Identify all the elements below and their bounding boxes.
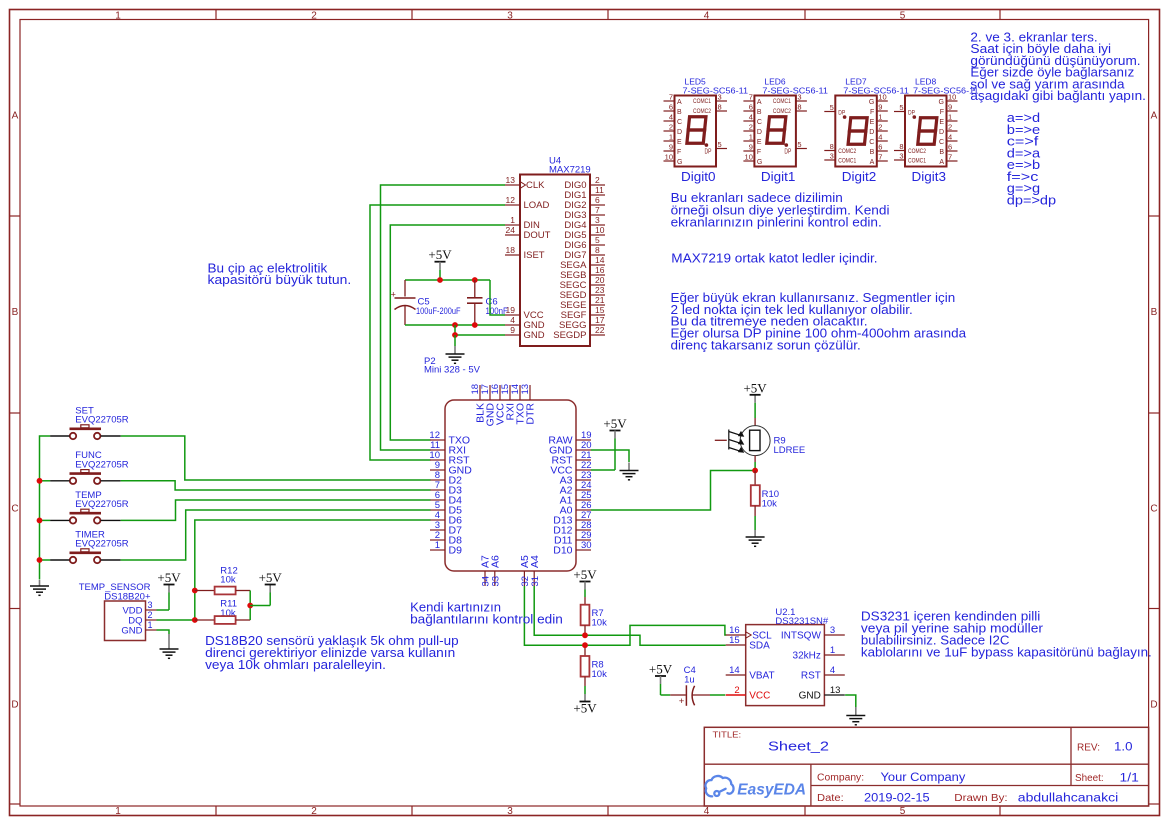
power flag +5V (left of C4) <box>655 675 666 677</box>
svg-text:20: 20 <box>595 275 605 285</box>
svg-text:A: A <box>939 159 944 166</box>
svg-text:7-SEG-SC56-11: 7-SEG-SC56-11 <box>913 85 979 95</box>
svg-text:1: 1 <box>148 620 153 630</box>
svg-text:30: 30 <box>581 540 592 551</box>
svg-text:2: 2 <box>311 806 317 817</box>
U4 pin 23 SEGD <box>590 294 605 296</box>
P2 pin 34 A7 <box>484 571 486 586</box>
svg-text:9: 9 <box>948 103 952 112</box>
svg-text:RST: RST <box>801 671 821 682</box>
U4 pin 2 DIG0 <box>590 184 605 186</box>
wire TEMP to D4 <box>121 500 431 520</box>
junction <box>247 603 253 609</box>
svg-text:EVQ22705R: EVQ22705R <box>75 415 128 426</box>
U4 pin 15 SEGF <box>590 314 605 316</box>
svg-text:GND: GND <box>799 691 821 702</box>
P2 pin 24 A2 <box>576 489 591 491</box>
power flag +5V (above R7) <box>580 581 591 583</box>
svg-text:C: C <box>939 139 944 146</box>
P2 pin 32 A5 <box>523 571 525 586</box>
svg-text:12: 12 <box>506 195 516 205</box>
svg-text:A: A <box>12 111 19 122</box>
P2 pin 22 VCC <box>576 469 591 471</box>
wire A0 to R9/R10 node <box>591 471 755 511</box>
svg-text:1: 1 <box>749 133 753 142</box>
svg-text:+: + <box>679 696 685 707</box>
svg-text:COMC1: COMC1 <box>693 98 711 105</box>
power flag +5V (below R8, inverted) <box>580 701 591 703</box>
svg-text:21: 21 <box>595 295 605 305</box>
wire VDD to +5V <box>157 609 170 611</box>
svg-text:SDA: SDA <box>749 641 770 652</box>
svg-text:4: 4 <box>878 133 882 142</box>
svg-text:3: 3 <box>830 152 834 161</box>
svg-text:5: 5 <box>830 103 834 112</box>
U4 pin 17 SEGG <box>590 324 605 326</box>
P2 pin 27 D13 <box>576 519 591 521</box>
svg-text:D9: D9 <box>449 545 463 557</box>
svg-text:Your Company: Your Company <box>881 772 966 784</box>
svg-text:10k: 10k <box>592 669 608 680</box>
svg-text:2: 2 <box>311 10 317 21</box>
P2 pin 28 D12 <box>576 529 591 531</box>
wire D6 to DQ node <box>195 520 431 620</box>
svg-text:E: E <box>870 119 875 126</box>
wire A4 to SDA <box>534 586 726 645</box>
svg-text:REV:: REV: <box>1077 743 1100 754</box>
junction <box>452 322 458 328</box>
capacitor C5 <box>404 280 406 297</box>
svg-text:3: 3 <box>830 625 835 636</box>
svg-text:D: D <box>869 129 874 136</box>
svg-text:8: 8 <box>830 142 834 151</box>
svg-text:A: A <box>1151 111 1158 122</box>
P2 pin 10 RST <box>430 459 445 461</box>
svg-text:8: 8 <box>718 103 722 112</box>
svg-text:23: 23 <box>595 285 605 295</box>
wire LOAD to RST <box>370 205 505 460</box>
power flag +5V (above DS18B20) <box>164 584 175 586</box>
svg-text:+5V: +5V <box>157 570 181 585</box>
svg-text:Company:: Company: <box>817 773 864 784</box>
svg-text:10k: 10k <box>592 618 608 629</box>
U2.1 pin 14 VBAT <box>726 674 746 676</box>
svg-text:B: B <box>12 307 19 318</box>
svg-text:13: 13 <box>830 685 841 696</box>
U4 pin 10 DIG5 <box>590 234 605 236</box>
svg-text:Digit2: Digit2 <box>842 169 877 184</box>
svg-text:9: 9 <box>669 143 673 152</box>
svg-text:COMC1: COMC1 <box>908 158 926 165</box>
svg-text:7: 7 <box>749 93 753 102</box>
wire branch to GND pin 9 <box>455 325 505 335</box>
svg-text:3: 3 <box>797 93 801 102</box>
wire SET to D2 <box>121 436 431 480</box>
svg-text:GND: GND <box>524 330 545 341</box>
svg-text:kablolarını ve 1uF bypass kapa: kablolarını ve 1uF bypass kapasitörünü b… <box>861 646 1152 660</box>
svg-text:5: 5 <box>899 103 903 112</box>
svg-text:2: 2 <box>948 123 952 132</box>
svg-text:Digit0: Digit0 <box>681 169 716 184</box>
svg-text:2: 2 <box>669 123 673 132</box>
svg-text:18: 18 <box>506 245 516 255</box>
svg-text:7: 7 <box>948 153 952 162</box>
svg-text:EasyEDA: EasyEDA <box>737 781 806 798</box>
P2 pin 4 D6 <box>430 519 445 521</box>
svg-text:10k: 10k <box>220 575 236 586</box>
P2 pin 30 D10 <box>576 549 591 551</box>
svg-text:MAX7219 ortak katot ledler içi: MAX7219 ortak katot ledler içindir. <box>671 252 877 266</box>
U4 pin 14 SEGA <box>590 264 605 266</box>
junction <box>452 332 458 338</box>
svg-text:6: 6 <box>669 103 673 112</box>
photoresistor R9 LDREE <box>754 395 756 403</box>
svg-text:E: E <box>757 139 762 146</box>
capacitor C6 <box>474 280 476 297</box>
U2.1 pin 2 VCC <box>726 694 746 696</box>
junction <box>472 322 478 328</box>
svg-text:10: 10 <box>745 153 753 162</box>
U4 pin 21 SEGE <box>590 304 605 306</box>
svg-text:10: 10 <box>948 93 956 102</box>
svg-text:7: 7 <box>878 153 882 162</box>
svg-text:A: A <box>870 159 875 166</box>
svg-text:D10: D10 <box>553 545 572 557</box>
U4 pin 3 DIG4 <box>590 224 605 226</box>
svg-text:13: 13 <box>506 175 516 185</box>
svg-text:5: 5 <box>900 10 906 21</box>
DS18B20 pin 1 GND <box>146 629 157 631</box>
svg-text:6: 6 <box>878 143 882 152</box>
junction <box>192 617 198 623</box>
svg-text:EVQ22705R: EVQ22705R <box>75 539 128 550</box>
svg-text:13: 13 <box>520 384 531 395</box>
svg-text:4: 4 <box>704 806 710 817</box>
wire button ground bus <box>40 436 51 580</box>
U4 pin 9 GND <box>505 334 520 336</box>
svg-text:COMC2: COMC2 <box>773 108 791 115</box>
wire GND to ground <box>157 630 170 634</box>
svg-text:+5V: +5V <box>573 701 597 716</box>
svg-text:22: 22 <box>595 325 605 335</box>
svg-text:B: B <box>939 149 944 156</box>
power flag +5V (above R9) <box>750 394 761 396</box>
svg-text:SEGDP: SEGDP <box>553 330 586 341</box>
svg-text:14: 14 <box>595 255 605 265</box>
svg-text:COMC2: COMC2 <box>693 108 711 115</box>
svg-text:10: 10 <box>665 153 673 162</box>
P2 pin 16 VCC <box>499 385 501 400</box>
svg-text:3: 3 <box>595 215 600 225</box>
U4 pin 24 DOUT <box>505 234 520 236</box>
DS18B20 pin 2 DQ <box>146 619 157 621</box>
svg-text:dp=>dp: dp=>dp <box>1007 193 1056 207</box>
svg-text:4: 4 <box>669 113 673 122</box>
P2 pin 7 D3 <box>430 489 445 491</box>
svg-text:EVQ22705R: EVQ22705R <box>75 499 128 510</box>
svg-text:1: 1 <box>510 215 515 225</box>
svg-text:10k: 10k <box>762 499 778 510</box>
svg-text:CLK: CLK <box>526 180 545 191</box>
wire to ground <box>454 335 456 346</box>
svg-text:+5V: +5V <box>603 416 627 431</box>
U4 pin 8 DIG7 <box>590 254 605 256</box>
wire R11/R12 right join <box>249 591 251 621</box>
svg-text:4: 4 <box>948 133 952 142</box>
P2 pin 18 BLK <box>479 385 481 400</box>
svg-text:COMC2: COMC2 <box>838 148 856 155</box>
svg-text:1: 1 <box>115 806 121 817</box>
junction <box>582 632 588 638</box>
junction <box>437 277 443 283</box>
svg-text:DTR: DTR <box>525 403 537 425</box>
title block <box>704 727 1148 806</box>
junction <box>37 518 43 524</box>
P2 pin 20 GND <box>576 449 591 451</box>
svg-text:4: 4 <box>510 315 515 325</box>
svg-text:F: F <box>870 109 874 116</box>
svg-text:TITLE:: TITLE: <box>713 730 742 740</box>
svg-text:3: 3 <box>507 10 513 21</box>
svg-text:+5V: +5V <box>743 380 767 395</box>
svg-text:5: 5 <box>718 140 722 149</box>
svg-text:+5V: +5V <box>573 567 597 582</box>
junction <box>37 557 43 563</box>
svg-text:Sheet_2: Sheet_2 <box>768 739 829 754</box>
P2 pin 3 D7 <box>430 529 445 531</box>
svg-text:COMC2: COMC2 <box>908 148 926 155</box>
P2 pin 2 D8 <box>430 539 445 541</box>
svg-text:kapasitörü büyük tutun.: kapasitörü büyük tutun. <box>208 273 352 287</box>
svg-text:C: C <box>11 504 18 515</box>
svg-text:Date:: Date: <box>817 793 844 804</box>
ground (right of U2.1) <box>846 715 865 717</box>
svg-text:aşagıdaki gibi bağlantı yapın.: aşagıdaki gibi bağlantı yapın. <box>970 89 1146 103</box>
svg-text:15: 15 <box>595 305 605 315</box>
svg-text:F: F <box>677 149 681 156</box>
svg-text:1: 1 <box>830 645 835 656</box>
U4 pin 6 DIG2 <box>590 204 605 206</box>
wire DIN to TXO <box>390 225 505 440</box>
wire +5V rail to caps <box>405 279 490 281</box>
svg-text:A: A <box>677 99 682 106</box>
svg-text:bağlantılarını kontrol edin: bağlantılarını kontrol edin <box>410 612 563 626</box>
svg-text:6: 6 <box>749 103 753 112</box>
resistor R10 <box>754 471 756 486</box>
svg-text:1/1: 1/1 <box>1120 772 1139 784</box>
svg-text:LOAD: LOAD <box>524 200 550 211</box>
wire VCC19 to +5V rail <box>490 280 505 315</box>
U2.1 pin 4 RST <box>824 674 844 676</box>
U2.1 pin 3 INTSQW <box>824 634 844 636</box>
U2.1 pin 13 GND <box>824 694 844 696</box>
svg-text:+5V: +5V <box>649 662 673 677</box>
wire DQ to node <box>157 619 195 621</box>
P2 pin 6 D4 <box>430 499 445 501</box>
wire A5 to SCL <box>524 586 726 645</box>
svg-text:3: 3 <box>148 600 153 610</box>
svg-text:EVQ22705R: EVQ22705R <box>75 460 128 471</box>
junction node A0/R9/R10 <box>752 468 758 474</box>
svg-text:16: 16 <box>595 265 605 275</box>
svg-text:1u: 1u <box>684 674 695 685</box>
svg-text:ISET: ISET <box>524 250 545 261</box>
svg-text:100uF-200uF: 100uF-200uF <box>416 306 461 317</box>
svg-text:A: A <box>757 99 762 106</box>
svg-text:LDREE: LDREE <box>774 445 806 456</box>
svg-text:DP: DP <box>705 149 712 156</box>
P2 pin 15 RXI <box>509 385 511 400</box>
svg-text:Digit1: Digit1 <box>761 169 796 184</box>
U2.1 pin 15 SDA <box>726 644 746 646</box>
svg-text:3: 3 <box>507 806 513 817</box>
svg-text:5: 5 <box>595 235 600 245</box>
svg-text:direnç takarsanız sorun çözülü: direnç takarsanız sorun çözülür. <box>671 339 861 353</box>
ground (below R10) <box>754 530 756 537</box>
wire CLK to RXI <box>381 185 506 450</box>
junction R12 node <box>192 588 198 594</box>
P2 pin 26 A0 <box>576 509 591 511</box>
wire gnd rail under caps <box>405 324 505 326</box>
svg-text:D: D <box>1150 700 1157 711</box>
svg-text:3: 3 <box>718 93 722 102</box>
P2 pin 33 A6 <box>494 571 496 586</box>
svg-text:veya 10k ohmları paralelleyin.: veya 10k ohmları paralelleyin. <box>205 658 386 672</box>
svg-text:D: D <box>939 129 944 136</box>
svg-text:24: 24 <box>506 225 516 235</box>
svg-text:VBAT: VBAT <box>749 671 774 682</box>
power flag +5V (above pullups) <box>265 584 276 586</box>
svg-text:1: 1 <box>435 540 440 551</box>
P2 pin 5 D5 <box>430 509 445 511</box>
U4 pin 18 ISET <box>505 254 520 256</box>
svg-text:4: 4 <box>830 665 835 676</box>
svg-text:1: 1 <box>669 133 673 142</box>
svg-text:2: 2 <box>734 685 739 696</box>
svg-text:E: E <box>939 119 944 126</box>
svg-text:2: 2 <box>595 175 600 185</box>
DS18B20 pin 3 VDD <box>146 609 157 611</box>
U4 pin 16 SEGB <box>590 274 605 276</box>
P2 pin 1 D9 <box>430 549 445 551</box>
svg-text:G: G <box>869 99 874 106</box>
P2 pin 14 TXO <box>519 385 521 400</box>
svg-text:DOUT: DOUT <box>524 230 551 241</box>
wire +5V to C4 <box>661 694 671 696</box>
svg-text:3: 3 <box>899 152 903 161</box>
P2 pin 21 RST <box>576 459 591 461</box>
svg-text:9: 9 <box>749 143 753 152</box>
svg-text:10: 10 <box>878 93 886 102</box>
svg-text:+: + <box>391 290 396 300</box>
wire GND13 to ground <box>845 695 856 707</box>
P2 pin 9 GND <box>430 469 445 471</box>
svg-text:1: 1 <box>115 10 121 21</box>
svg-text:G: G <box>677 159 682 166</box>
svg-text:15: 15 <box>729 635 740 646</box>
svg-text:C: C <box>869 139 874 146</box>
svg-text:B: B <box>870 149 875 156</box>
svg-text:INTSQW: INTSQW <box>781 631 822 642</box>
U4 pin 12 LOAD <box>505 204 520 206</box>
svg-text:7-SEG-SC56-11: 7-SEG-SC56-11 <box>683 85 749 95</box>
U4 pin 20 SEGC <box>590 284 605 286</box>
svg-text:DP: DP <box>784 149 791 156</box>
svg-text:4: 4 <box>749 113 753 122</box>
svg-text:1: 1 <box>878 113 882 122</box>
wire to +5V (pullups) <box>250 605 270 607</box>
svg-text:2019-02-15: 2019-02-15 <box>864 792 930 804</box>
P2 pin 29 D11 <box>576 539 591 541</box>
svg-text:C: C <box>677 119 682 126</box>
U2.1 pin 16 SCL <box>726 634 746 636</box>
svg-text:4: 4 <box>704 10 710 21</box>
svg-text:GND: GND <box>121 625 142 636</box>
ground (button bus) <box>39 580 41 586</box>
U4 pin 1 DIN <box>505 224 520 226</box>
wire P2 GND20 to ground <box>591 450 629 462</box>
svg-text:5: 5 <box>797 140 801 149</box>
svg-text:17: 17 <box>595 315 605 325</box>
svg-text:Sheet:: Sheet: <box>1075 773 1104 784</box>
U2.1 pin 1 32kHz <box>824 654 844 656</box>
svg-text:B: B <box>1151 307 1158 318</box>
ground (right of P2) <box>628 463 630 471</box>
U4 pin 5 DIG6 <box>590 244 605 246</box>
svg-text:33: 33 <box>490 576 501 587</box>
power flag +5V (right of P2) <box>610 430 621 432</box>
svg-text:C: C <box>757 119 762 126</box>
svg-text:9: 9 <box>510 325 515 335</box>
P2 pin 25 A1 <box>576 499 591 501</box>
svg-text:11: 11 <box>595 185 604 195</box>
P2 pin 12 TXO <box>430 439 445 441</box>
svg-text:7: 7 <box>595 205 600 215</box>
resistor R7 <box>584 597 586 605</box>
svg-text:1: 1 <box>948 113 952 122</box>
U4 pin 19 VCC <box>505 314 520 316</box>
P2 pin 11 RXI <box>430 449 445 451</box>
svg-text:10: 10 <box>595 225 605 235</box>
svg-text:Mini 328 - 5V: Mini 328 - 5V <box>424 365 481 376</box>
U4 pin 11 DIG1 <box>590 194 605 196</box>
svg-text:D: D <box>757 129 762 136</box>
P2 pin 31 A4 <box>533 571 535 586</box>
svg-text:31: 31 <box>530 576 541 587</box>
svg-text:COMC1: COMC1 <box>773 98 791 105</box>
svg-text:B: B <box>757 109 762 116</box>
U4 pin 7 DIG3 <box>590 214 605 216</box>
ground (below C5/C6) <box>454 346 456 354</box>
svg-text:7-SEG-SC56-11: 7-SEG-SC56-11 <box>762 85 828 95</box>
svg-text:E: E <box>677 139 682 146</box>
svg-text:8: 8 <box>595 245 600 255</box>
svg-text:Drawn By:: Drawn By: <box>954 793 1007 804</box>
svg-text:9: 9 <box>878 103 882 112</box>
svg-text:ekranlarınızın pinlerini kontr: ekranlarınızın pinlerini kontrol edin. <box>671 216 882 230</box>
svg-text:+5V: +5V <box>428 247 452 262</box>
svg-text:D: D <box>677 129 682 136</box>
ground (DS18B20) <box>160 648 179 650</box>
svg-text:5: 5 <box>900 806 906 817</box>
svg-text:G: G <box>939 99 944 106</box>
svg-text:7-SEG-SC56-11: 7-SEG-SC56-11 <box>843 85 909 95</box>
svg-text:6: 6 <box>595 195 600 205</box>
P2 pin 8 D2 <box>430 479 445 481</box>
svg-text:7: 7 <box>669 93 673 102</box>
svg-text:D: D <box>11 700 18 711</box>
P2 pin 19 RAW <box>576 439 591 441</box>
